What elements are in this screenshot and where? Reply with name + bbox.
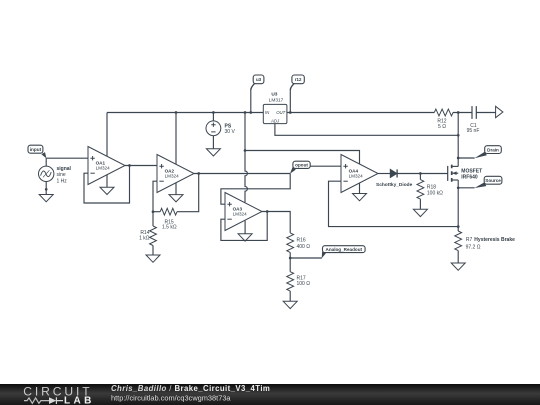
junction OA1 output — [128, 164, 131, 167]
junction Source flag — [457, 186, 460, 189]
wire input flag to source V2 — [45, 158, 47, 166]
wire drain vertical x=458.2 — [457, 113, 459, 167]
svg-text:MOSFET: MOSFET — [461, 168, 482, 174]
wire lower 30V rail to OA4 V+ stub — [245, 151, 360, 165]
junction dot below source V2 — [45, 188, 48, 191]
junction Analog_Readout node — [289, 257, 292, 260]
wire OA1 V- stub — [106, 175, 108, 188]
junction ADJ line at x=458.2 — [457, 134, 460, 137]
resistor R15 1.5 kOhm — [153, 174, 199, 231]
junction rail u3 stem — [249, 111, 252, 114]
junction R12 C1 drain node — [457, 111, 460, 114]
wire opout node riser to OA3 noninverting input — [221, 174, 290, 205]
svg-text:97.2 Ω: 97.2 Ω — [466, 245, 481, 251]
svg-text:ADJ: ADJ — [270, 119, 280, 124]
junction rail OA2 stub — [175, 111, 178, 114]
svg-text:http://circuitlab.com/cq3cwgm3: http://circuitlab.com/cq3cwgm38t73a — [111, 394, 231, 403]
transistor M1 MOSFET IRF640 — [448, 165, 482, 182]
ground below R7 — [451, 263, 465, 270]
wire OA4 output to diode — [378, 173, 390, 175]
svg-text:LM324: LM324 — [349, 173, 363, 178]
node opout flag — [290, 161, 310, 174]
ground below R14 — [146, 255, 160, 262]
svg-text:Drain: Drain — [487, 147, 499, 152]
capacitor C1 95 nF — [467, 106, 496, 134]
node Drain flag — [458, 146, 501, 159]
wire diode to MOSFET gate — [397, 173, 448, 175]
resistor R18 100 kOhm — [417, 174, 443, 210]
wire U3 OUT to R12 — [287, 112, 434, 114]
svg-text:u3: u3 — [256, 77, 262, 82]
node input flag — [28, 145, 46, 158]
wire OA1 V+ stub to 30V rail — [106, 113, 108, 157]
svg-text:Schottky_Diode: Schottky_Diode — [376, 182, 413, 188]
svg-text:Source: Source — [485, 178, 501, 183]
wire OA2 output to opout node — [194, 173, 290, 175]
resistor R16 400 Ohm — [287, 233, 310, 272]
ground below PS — [206, 149, 220, 156]
svg-text:LM324: LM324 — [165, 173, 179, 178]
op-amp OA2 LM324 — [157, 155, 194, 193]
wire OA2 V+ stub to rail — [175, 113, 177, 165]
op-amp OA1 LM324 — [88, 147, 125, 185]
svg-text:1 Hz: 1 Hz — [57, 178, 68, 184]
svg-text:opout: opout — [295, 162, 308, 167]
svg-text:LM317: LM317 — [269, 97, 284, 103]
ground below OA4 — [353, 194, 367, 201]
wire input to OA1 noninverting input — [46, 157, 88, 159]
junction rail PS — [212, 111, 215, 114]
svg-text:IRF640: IRF640 — [461, 174, 478, 180]
svg-text:95 nF: 95 nF — [467, 128, 480, 134]
node Analog_Readout flag — [290, 246, 365, 259]
svg-text:1 kΩ: 1 kΩ — [139, 235, 150, 241]
wire U3 ADJ to drain node — [275, 124, 458, 136]
svg-text:sine: sine — [57, 172, 66, 178]
wire OA2 inverting input to feedback node — [153, 181, 157, 212]
junction OA2 output — [197, 172, 200, 175]
node u3 flag — [251, 75, 264, 113]
source V2 signal sine 1 Hz — [39, 166, 72, 184]
footer bar — [0, 384, 540, 405]
node r12 flag — [290, 75, 304, 113]
wire OA1 output to OA2 noninverting input — [125, 165, 157, 167]
wire OA4 V- stub — [359, 183, 361, 193]
junction rail lower-rail branch — [244, 111, 247, 114]
svg-text:R7: R7 — [466, 237, 473, 243]
wire OA2 V- stub — [175, 183, 177, 195]
junction R14 R15 node — [152, 210, 155, 213]
resistor R7 97.2 Ohm Hysteresis Brake — [455, 231, 515, 263]
IC U3 LM317 — [263, 91, 287, 123]
ground below R17 — [283, 301, 297, 308]
junction Drain flag — [457, 157, 460, 160]
wire x=245 down to OA3 V+ with crossover hops — [245, 151, 247, 203]
wire OA4 feedback from source node — [329, 181, 459, 226]
svg-text:input: input — [30, 147, 42, 152]
svg-text:R16: R16 — [297, 237, 306, 243]
wire OA3 output to R16 — [262, 212, 290, 233]
svg-text:LAB: LAB — [64, 395, 95, 405]
resistor R12 5 Ohm — [434, 109, 472, 130]
wire OA3 feedback — [221, 212, 267, 241]
svg-text:r12: r12 — [295, 77, 302, 82]
svg-text:LM324: LM324 — [233, 211, 247, 216]
junction OA3 output — [266, 210, 269, 213]
ground below OA3 — [238, 234, 252, 241]
resistor R17 100 Ohm — [287, 272, 310, 302]
wire source V2 to ground — [45, 182, 47, 195]
op-amp OA4 LM324 — [341, 155, 378, 193]
svg-text:5 Ω: 5 Ω — [438, 124, 446, 130]
junction R18 gate node — [419, 172, 422, 175]
ground below OA1 — [100, 187, 114, 194]
wire OA3 V- stub — [244, 221, 246, 234]
junction r12 stem — [289, 111, 292, 114]
wire 30V branch x=245 with hops — [244, 113, 246, 151]
svg-text:100 Ω: 100 Ω — [297, 281, 311, 287]
output terminal arrow — [496, 106, 503, 117]
svg-text:LM324: LM324 — [96, 165, 110, 170]
svg-text:Analog_Readout: Analog_Readout — [326, 247, 363, 252]
wire 30V rail top — [107, 112, 263, 114]
source PS 30 V — [206, 113, 235, 149]
wire opout to OA4 noninverting input — [310, 165, 341, 167]
junction lower rail — [244, 149, 247, 152]
svg-text:OUT: OUT — [276, 110, 285, 115]
diode D1 Schottky_Diode — [376, 169, 413, 187]
junction source feedback node — [457, 225, 460, 228]
svg-text:100 kΩ: 100 kΩ — [427, 190, 443, 196]
wire OA1 feedback output to inverting input — [84, 166, 130, 204]
resistor R14 1 kOhm — [139, 212, 156, 255]
ground below R18 — [413, 209, 427, 216]
node Source flag — [458, 176, 502, 188]
svg-text:1.5 kΩ: 1.5 kΩ — [162, 225, 177, 231]
ground below OA2 — [169, 195, 183, 202]
CircuitLab logo — [23, 384, 95, 405]
svg-text:Hysteresis Brake: Hysteresis Brake — [474, 237, 515, 243]
svg-text:30 V: 30 V — [225, 129, 236, 135]
ground below input source — [39, 195, 53, 202]
wire MOSFET source down to R7 — [457, 180, 459, 231]
op-amp OA3 LM324 — [225, 193, 262, 231]
svg-text:U3: U3 — [271, 91, 277, 97]
svg-text:Chris_Badillo / Brake_Circuit_: Chris_Badillo / Brake_Circuit_V3_4Tim — [111, 384, 270, 393]
svg-text:400 Ω: 400 Ω — [297, 244, 311, 250]
